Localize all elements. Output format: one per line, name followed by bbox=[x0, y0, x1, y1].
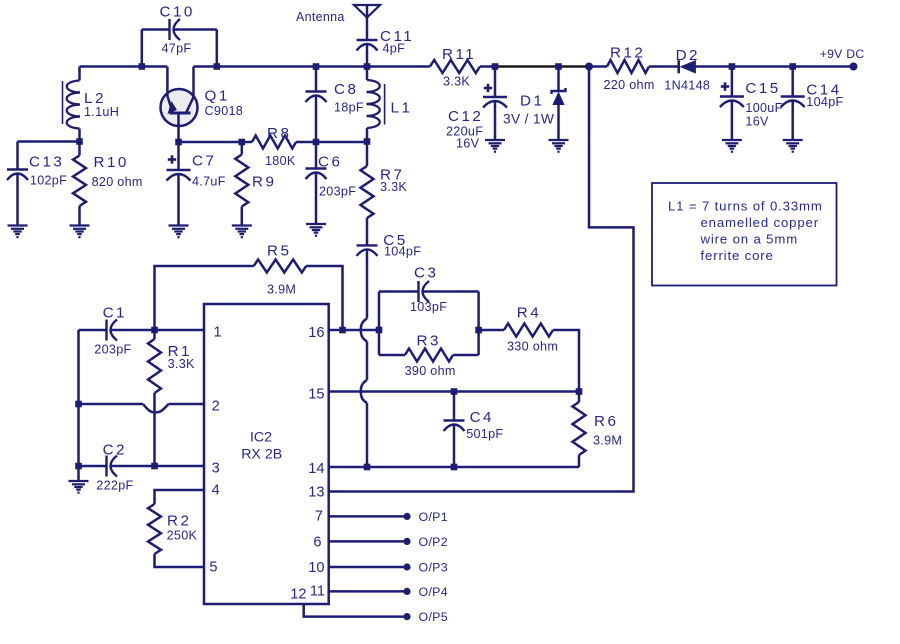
svg-text:330 ohm: 330 ohm bbox=[507, 339, 558, 353]
wire bbox=[695, 65, 854, 68]
node junction C4 bottom bbox=[451, 464, 458, 471]
capacitor C10 bbox=[141, 30, 144, 67]
wire C3 block edges bbox=[378, 292, 381, 356]
node junction pin16/R5 bbox=[339, 327, 346, 334]
ground D1 bbox=[549, 139, 569, 141]
ground C6 bbox=[306, 223, 326, 225]
svg-text:10: 10 bbox=[308, 560, 324, 576]
svg-text:C10: C10 bbox=[160, 4, 195, 21]
svg-text:R9: R9 bbox=[252, 174, 276, 191]
svg-text:501pF: 501pF bbox=[466, 427, 503, 441]
svg-text:O/P4: O/P4 bbox=[419, 585, 448, 599]
svg-text:Q1: Q1 bbox=[205, 88, 230, 105]
node O/P3 terminal bbox=[403, 563, 410, 570]
resistor R8 bbox=[242, 141, 252, 144]
node junction Q1 base bbox=[175, 139, 182, 146]
capacitor C13 bbox=[18, 140, 80, 143]
svg-text:100uF: 100uF bbox=[745, 101, 782, 115]
wire C5 down with hops bbox=[366, 250, 369, 319]
node junction L2 bottom bbox=[76, 138, 83, 145]
wire bbox=[194, 65, 431, 68]
antenna bbox=[354, 5, 380, 18]
svg-text:C4: C4 bbox=[470, 409, 494, 426]
svg-text:14: 14 bbox=[308, 461, 324, 477]
ground R10 bbox=[70, 224, 90, 226]
wire pin13 riser bbox=[329, 67, 634, 492]
svg-text:180K: 180K bbox=[265, 154, 296, 168]
node junction R9 top bbox=[239, 139, 246, 146]
resistor R7 bbox=[366, 142, 369, 167]
svg-text:R5: R5 bbox=[267, 242, 291, 259]
capacitor C3 bbox=[379, 290, 419, 293]
svg-text:O/P2: O/P2 bbox=[419, 535, 448, 549]
resistor R3 bbox=[379, 354, 405, 357]
svg-text:11: 11 bbox=[310, 584, 325, 600]
svg-text:R6: R6 bbox=[594, 413, 618, 430]
svg-text:R2: R2 bbox=[167, 513, 191, 530]
wire output pin O/P1 bbox=[329, 515, 404, 518]
svg-text:L1 = 7 turns of 0.33mm: L1 = 7 turns of 0.33mm bbox=[668, 199, 823, 214]
capacitor C12 bbox=[492, 63, 499, 70]
svg-text:L1: L1 bbox=[391, 100, 413, 117]
node junction C4 top bbox=[451, 388, 458, 395]
ground C14 bbox=[783, 139, 803, 141]
note box L1 description bbox=[652, 183, 837, 286]
capacitor C4 bbox=[453, 392, 456, 421]
svg-text:IC2: IC2 bbox=[250, 430, 272, 446]
svg-text:222pF: 222pF bbox=[96, 478, 133, 492]
node junction C8 top bbox=[313, 63, 320, 70]
svg-text:15: 15 bbox=[308, 386, 324, 402]
transistor Q1 bbox=[161, 89, 198, 126]
svg-text:3.3K: 3.3K bbox=[380, 180, 407, 194]
inductor L2 bbox=[78, 67, 81, 81]
svg-text:203pF: 203pF bbox=[94, 343, 131, 357]
ground C12 bbox=[485, 139, 505, 141]
capacitor C1 bbox=[79, 329, 107, 332]
wire bbox=[316, 141, 367, 144]
op-amp U1 : IC2 RX 2B box bbox=[204, 304, 329, 604]
resistor R2 bbox=[155, 490, 205, 504]
svg-text:O/P1: O/P1 bbox=[419, 510, 448, 524]
svg-text:16: 16 bbox=[308, 325, 324, 341]
svg-text:3.9M: 3.9M bbox=[267, 282, 296, 296]
svg-text:O/P5: O/P5 bbox=[419, 610, 448, 624]
svg-text:enamelled copper: enamelled copper bbox=[701, 215, 819, 230]
svg-text:Antenna: Antenna bbox=[296, 10, 345, 24]
svg-text:C2: C2 bbox=[103, 442, 127, 459]
svg-text:R12: R12 bbox=[610, 45, 645, 62]
zener diode D1 bbox=[555, 63, 562, 70]
svg-text:wire on a 5mm: wire on a 5mm bbox=[700, 232, 799, 247]
svg-text:C6: C6 bbox=[318, 154, 342, 171]
svg-text:7: 7 bbox=[315, 509, 323, 525]
resistor R10 bbox=[78, 142, 81, 156]
wire output pin O/P4 bbox=[329, 590, 404, 593]
node junction R1 bottom bbox=[151, 463, 158, 470]
ground C7 bbox=[169, 224, 189, 226]
svg-text:ferrite core: ferrite core bbox=[701, 248, 774, 263]
node junction C8/C6 bbox=[313, 139, 320, 146]
node junction rail to pin13 bbox=[585, 63, 593, 71]
wire bbox=[480, 65, 497, 68]
resistor R4 bbox=[479, 329, 504, 332]
node junction C3 block left bbox=[376, 327, 383, 334]
capacitor C7 bbox=[177, 142, 180, 170]
ground C13 bbox=[8, 224, 28, 226]
node O/P4 terminal bbox=[403, 588, 410, 595]
svg-text:13: 13 bbox=[308, 485, 324, 501]
wire pin 14 bbox=[329, 466, 579, 469]
node junction R4/R6 bbox=[576, 388, 583, 395]
svg-text:390 ohm: 390 ohm bbox=[405, 364, 456, 378]
svg-text:D2: D2 bbox=[676, 47, 700, 64]
svg-text:C1: C1 bbox=[103, 305, 127, 322]
node O/P2 terminal bbox=[403, 538, 410, 545]
svg-text:104pF: 104pF bbox=[384, 244, 421, 258]
svg-text:3.3K: 3.3K bbox=[443, 75, 470, 89]
node junction C10 left bbox=[139, 63, 146, 70]
svg-text:6: 6 bbox=[313, 534, 321, 550]
svg-text:1.1uH: 1.1uH bbox=[84, 105, 119, 119]
ground R9 bbox=[232, 224, 252, 226]
svg-text:2: 2 bbox=[212, 399, 220, 415]
svg-text:18pF: 18pF bbox=[334, 101, 364, 115]
wire pin 1 bbox=[155, 329, 205, 332]
resistor R5 bbox=[155, 266, 254, 330]
node junction C2 left bbox=[75, 463, 82, 470]
wire bbox=[179, 141, 242, 144]
node junction antenna rail bbox=[364, 63, 371, 70]
capacitor C5 bbox=[357, 244, 378, 246]
wire pin 16 bbox=[329, 329, 379, 332]
svg-text:104pF: 104pF bbox=[806, 95, 843, 109]
inductor L1 bbox=[366, 67, 369, 81]
svg-text:R8: R8 bbox=[267, 125, 291, 142]
wire output pin O/P5 (pin 12) bbox=[304, 604, 404, 617]
capacitor C6 bbox=[315, 142, 318, 169]
svg-text:C9018: C9018 bbox=[205, 104, 244, 118]
svg-text:R11: R11 bbox=[442, 46, 476, 63]
svg-text:250K: 250K bbox=[167, 529, 198, 543]
wire left column bbox=[77, 330, 80, 481]
svg-text:C15: C15 bbox=[745, 80, 780, 97]
svg-text:12: 12 bbox=[290, 587, 306, 603]
svg-text:3.3K: 3.3K bbox=[168, 357, 195, 371]
svg-text:47pF: 47pF bbox=[162, 41, 192, 55]
wire bbox=[80, 65, 168, 68]
svg-text:3: 3 bbox=[212, 461, 220, 477]
svg-text:3.9M: 3.9M bbox=[593, 434, 622, 448]
wire output pin O/P3 bbox=[329, 566, 404, 569]
resistor R6 bbox=[578, 392, 581, 403]
svg-text:R10: R10 bbox=[94, 154, 129, 171]
node junction L1 bottom bbox=[364, 138, 371, 145]
svg-text:+9V DC: +9V DC bbox=[820, 47, 865, 61]
svg-text:102pF: 102pF bbox=[30, 173, 67, 187]
node junction pin1 bbox=[151, 327, 158, 334]
resistor R12 bbox=[607, 60, 649, 73]
resistor R9 bbox=[241, 142, 244, 155]
svg-text:C3: C3 bbox=[414, 265, 438, 282]
svg-text:C8: C8 bbox=[334, 81, 358, 98]
svg-text:16V: 16V bbox=[456, 137, 480, 151]
capacitor C14 bbox=[789, 63, 796, 70]
capacitor C8 bbox=[315, 67, 318, 92]
svg-text:1: 1 bbox=[214, 325, 222, 341]
node junction pin2 left bbox=[75, 401, 82, 408]
svg-text:RX 2B: RX 2B bbox=[241, 446, 282, 462]
wire bbox=[589, 65, 607, 68]
svg-text:C12: C12 bbox=[448, 108, 483, 125]
node junction C3 block right bbox=[475, 327, 482, 334]
svg-text:16V: 16V bbox=[745, 115, 769, 129]
node junction C5 to pin14 bbox=[364, 464, 371, 471]
ground C2 column bbox=[69, 480, 89, 482]
svg-text:O/P3: O/P3 bbox=[419, 561, 448, 575]
wire pin 2 with hop bbox=[79, 403, 144, 406]
node O/P1 terminal bbox=[403, 513, 410, 520]
svg-text:4pF: 4pF bbox=[383, 42, 406, 56]
node O/P5 terminal bbox=[403, 613, 410, 620]
capacitor C15 bbox=[729, 63, 736, 70]
resistor R1 bbox=[153, 330, 156, 339]
svg-text:4: 4 bbox=[212, 483, 220, 499]
wire bbox=[649, 65, 678, 68]
svg-text:820 ohm: 820 ohm bbox=[92, 175, 143, 189]
node junction C10 right bbox=[214, 63, 221, 70]
capacitor C11 bbox=[357, 39, 378, 41]
wire bbox=[497, 65, 589, 67]
svg-text:5: 5 bbox=[209, 559, 217, 575]
svg-text:R4: R4 bbox=[517, 305, 541, 322]
svg-text:C7: C7 bbox=[192, 153, 216, 170]
diode D2 bbox=[677, 60, 680, 73]
ground C15 bbox=[722, 139, 742, 141]
wire pin 15 bbox=[329, 390, 579, 393]
svg-text:203pF: 203pF bbox=[319, 185, 356, 199]
svg-text:4.7uF: 4.7uF bbox=[192, 174, 226, 188]
capacitor C2 bbox=[79, 465, 107, 468]
resistor R11 bbox=[430, 60, 480, 73]
svg-text:1N4148: 1N4148 bbox=[664, 79, 710, 93]
svg-text:R3: R3 bbox=[417, 333, 441, 350]
svg-text:C13: C13 bbox=[29, 154, 64, 171]
svg-text:3V / 1W: 3V / 1W bbox=[503, 112, 554, 127]
wire output pin O/P2 bbox=[329, 540, 404, 543]
svg-text:D1: D1 bbox=[520, 93, 544, 110]
svg-text:220 ohm: 220 ohm bbox=[604, 78, 655, 92]
node +9V DC terminal bbox=[850, 63, 858, 71]
svg-text:103pF: 103pF bbox=[410, 300, 447, 314]
